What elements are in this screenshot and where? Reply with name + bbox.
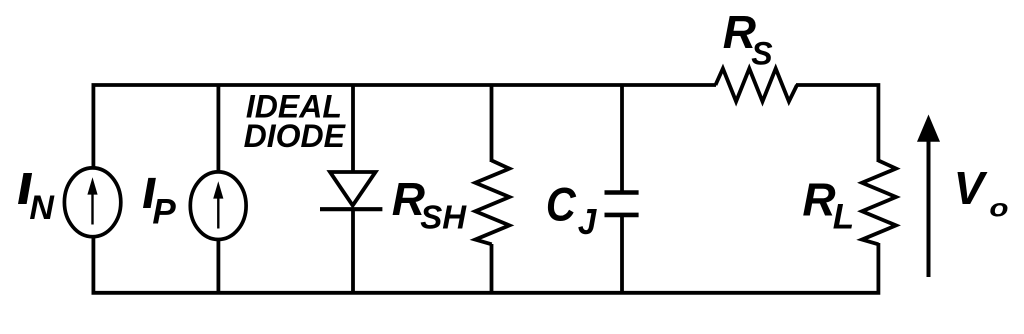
diode D ideal [320, 172, 382, 209]
svg-text:S: S [751, 35, 773, 71]
svg-text:R: R [802, 174, 835, 226]
wire capacitor branch bottom [620, 215, 624, 292]
svg-text:L: L [833, 197, 854, 236]
current source I_P [190, 172, 246, 240]
label R_L [802, 174, 854, 237]
arrow of I_P [213, 181, 223, 228]
svg-text:N: N [29, 189, 55, 227]
label C_J [546, 179, 597, 242]
current source I_N [64, 168, 120, 237]
label R_S [723, 6, 774, 71]
label R_SH [392, 173, 468, 236]
svg-text:o: o [989, 194, 1008, 222]
wire diode branch bottom [351, 209, 355, 292]
capacitor C_J [605, 193, 639, 215]
resistor R_L [862, 161, 896, 245]
wire diode branch top [351, 85, 355, 172]
wire R_SH branch bottom [490, 244, 494, 292]
wire top rail right + right branch vertical [796, 85, 878, 162]
wire top rail left + left branch vertical [93, 85, 716, 168]
wire I_P branch top [216, 85, 220, 173]
svg-text:J: J [578, 203, 597, 243]
resistor R_SH [475, 161, 509, 245]
svg-text:V: V [954, 162, 988, 214]
wire I_P branch bottom [216, 238, 220, 292]
label IDEAL DIODE [244, 89, 347, 154]
wire capacitor branch top [620, 85, 624, 192]
svg-text:C: C [546, 179, 577, 231]
wire bottom rail [93, 237, 878, 293]
svg-text:P: P [152, 193, 176, 232]
resistor R_S [716, 69, 798, 102]
svg-text:DIODE: DIODE [244, 118, 347, 154]
label I_P [143, 178, 176, 232]
wire R_SH branch top [490, 85, 494, 162]
label V_o [954, 162, 1009, 223]
label I_N [18, 173, 55, 227]
svg-text:SH: SH [420, 199, 467, 236]
arrow of I_N [87, 177, 97, 224]
arrow V_o [917, 115, 940, 278]
